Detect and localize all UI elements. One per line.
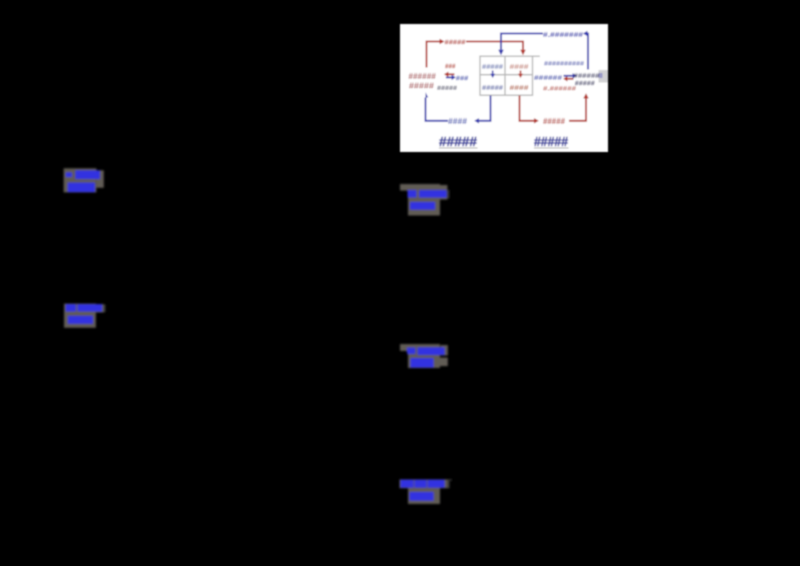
svg-text:######: ###### — [574, 71, 601, 80]
svg-text:#####: ##### — [575, 81, 595, 88]
svg-text:#####: ##### — [409, 82, 435, 91]
svg-text:#.#######: #.####### — [543, 30, 584, 39]
svg-text:####: #### — [510, 83, 530, 92]
svg-text:#####: ##### — [482, 62, 504, 71]
svg-text:####: #### — [448, 117, 468, 126]
svg-text:#####: ##### — [439, 135, 477, 149]
svg-text:######: ###### — [408, 72, 436, 81]
svg-text:####: #### — [510, 62, 530, 71]
svg-text:#####: ##### — [437, 85, 457, 92]
svg-text:#####: ##### — [543, 117, 566, 126]
svg-text:#.######: #.###### — [543, 85, 576, 92]
svg-text:######: ###### — [534, 73, 563, 82]
svg-text:###: ### — [445, 64, 456, 71]
svg-text:#####: ##### — [445, 37, 467, 46]
svg-text:##########: ########## — [544, 60, 584, 67]
svg-text:###: ### — [456, 74, 469, 83]
svg-text:#####: ##### — [482, 83, 504, 92]
svg-text:#####: ##### — [534, 135, 568, 149]
